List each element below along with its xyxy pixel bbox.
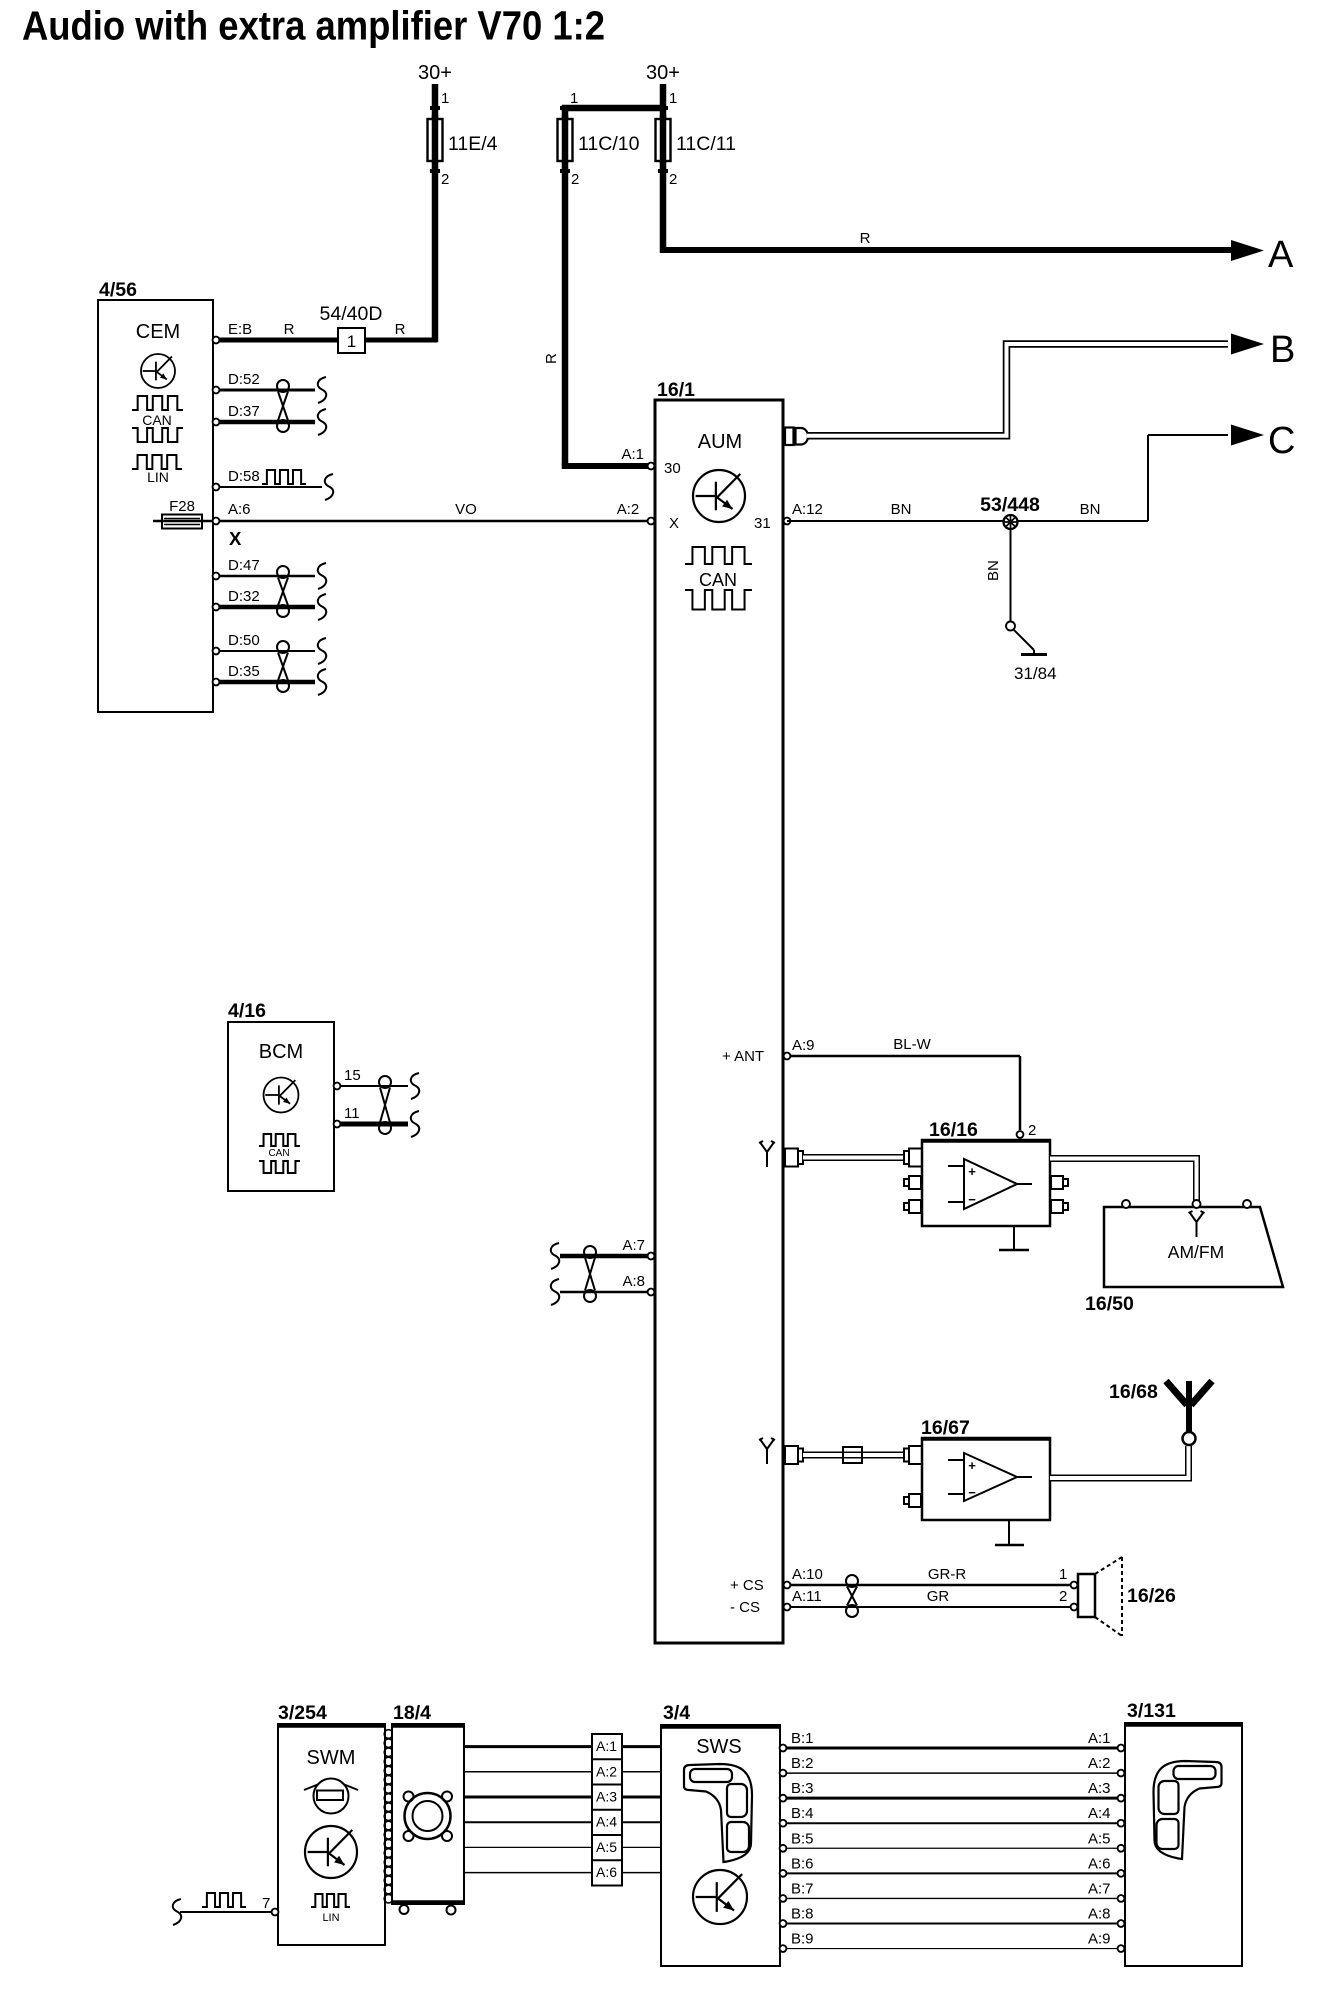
wire 30+ to fuse 11E/4 [432, 84, 439, 119]
svg-text:D:52: D:52 [228, 371, 260, 388]
3/131 pin A:7 [1118, 1895, 1125, 1902]
wire continuation BCM 11 [411, 1111, 419, 1137]
svg-text:A:4: A:4 [1088, 1805, 1111, 1822]
svg-text:A:7: A:7 [622, 1237, 645, 1254]
svg-text:AM/FM: AM/FM [1168, 1242, 1224, 1262]
wire CEM pin D:35 (twisted pair) [216, 680, 315, 685]
wire continuation BCM 15 [411, 1073, 419, 1099]
svg-text:SWS: SWS [696, 1736, 742, 1758]
SWM control-module symbol [305, 1826, 357, 1878]
CEM pin D:47 [213, 573, 220, 580]
wire AUM pin A:8 (twisted pair) [560, 1291, 648, 1294]
coax lead AUM to 16/16 [803, 1154, 905, 1161]
SWM pin 7 [272, 1909, 279, 1916]
svg-text:R: R [284, 321, 295, 338]
svg-text:A:12: A:12 [792, 501, 823, 518]
svg-text:X: X [669, 515, 679, 532]
wire 18/4 to SWS pin A:1 [464, 1745, 661, 1748]
svg-text:11C/10: 11C/10 [578, 133, 640, 155]
svg-text:A:3: A:3 [596, 1789, 617, 1805]
svg-text:A: A [1268, 234, 1294, 276]
AUM audio output lead connector [785, 428, 794, 446]
wire CEM pin D:58 LIN [216, 486, 322, 488]
wire SWS pin B:4 to 3/131 pin A:4 [786, 1822, 1118, 1824]
audio module 16/1 AUM box [655, 400, 783, 1643]
AUM pin 31 (A:12) [784, 518, 791, 525]
SWS control-module symbol [693, 1870, 747, 1924]
wire SWS pin B:7 to 3/131 pin A:7 [786, 1897, 1118, 1899]
3/131 pin A:6 [1118, 1870, 1125, 1877]
in-line connector label column A:1-A:6 [592, 1734, 622, 1886]
fuse 11C/11 [660, 115, 667, 163]
svg-text:D:32: D:32 [228, 588, 260, 605]
svg-text:−: − [968, 1192, 976, 1207]
CEM LIN symbol [132, 455, 182, 469]
coax lead AUM to 16/67 with in-line connector [803, 1452, 905, 1459]
CEM pin D:37 [213, 419, 220, 426]
svg-text:D:58: D:58 [228, 468, 260, 485]
svg-text:B:4: B:4 [791, 1805, 814, 1822]
BCM control-module symbol [264, 1078, 299, 1113]
roof antenna 16/68 [1186, 1381, 1192, 1432]
wire SWS pin B:3 to 3/131 pin A:3 [786, 1797, 1118, 1800]
AUM CAN symbol [685, 547, 752, 564]
svg-text:CAN: CAN [142, 412, 172, 428]
svg-text:A:10: A:10 [792, 1566, 823, 1583]
svg-text:54/40D: 54/40D [320, 303, 383, 325]
svg-text:B:8: B:8 [791, 1905, 814, 1922]
wire SWS pin B:8 to 3/131 pin A:8 [786, 1922, 1118, 1924]
svg-text:3/131: 3/131 [1127, 1700, 1176, 1722]
wire CEM pin D:47 (twisted pair) [216, 575, 315, 578]
SWS pin B:2 [780, 1770, 787, 1777]
svg-text:1: 1 [1059, 1566, 1067, 1583]
16/16 right pin upper [1051, 1176, 1063, 1189]
svg-text:A:8: A:8 [1088, 1905, 1111, 1922]
steering wheel module 3/254 SWM box [278, 1724, 385, 1945]
svg-text:CAN: CAN [268, 1148, 289, 1159]
shielded lead to connector arrow B [807, 344, 1228, 436]
wire CEM pin D:37 (twisted pair) [216, 420, 315, 425]
svg-text:A:8: A:8 [622, 1273, 645, 1290]
SWS pin B:1 [780, 1745, 787, 1752]
svg-text:BL-W: BL-W [893, 1036, 931, 1053]
CEM pin D:32 [213, 604, 220, 611]
wire 18/4 to SWS pin A:6 [464, 1872, 661, 1874]
svg-text:30+: 30+ [418, 62, 452, 84]
svg-text:A:1: A:1 [1088, 1730, 1111, 1747]
svg-text:R: R [860, 230, 871, 247]
3/131 pin A:8 [1118, 1920, 1125, 1927]
connector 18/4 box [392, 1724, 464, 1904]
antenna amplifier 16/16 box [922, 1140, 1050, 1226]
CEM pin D:50 [213, 648, 220, 655]
ground terminal 31/84 [1006, 622, 1015, 631]
svg-text:A:6: A:6 [228, 501, 251, 518]
wire 18/4 to SWS pin A:2 [464, 1771, 661, 1773]
svg-text:GR-R: GR-R [928, 1566, 966, 1583]
ground at 16/67 [1008, 1520, 1010, 1544]
wire CEM pin D:32 (twisted pair) [216, 605, 315, 610]
svg-text:+: + [968, 1458, 976, 1473]
svg-text:11E/4: 11E/4 [448, 133, 498, 155]
svg-text:A:2: A:2 [617, 501, 640, 518]
clock spring symbol in 18/4 [405, 1793, 451, 1839]
svg-text:11C/11: 11C/11 [676, 133, 736, 155]
in-line connector arrow B [1231, 334, 1264, 355]
svg-text:D:37: D:37 [228, 403, 260, 420]
wire continuation A:8 [551, 1279, 559, 1305]
SWS pin B:9 [780, 1945, 787, 1952]
wire GR: AUM pin A:11 to speaker 16/26 pin 2 [787, 1606, 1071, 1608]
wire continuation D:35 [318, 669, 326, 695]
svg-text:BN: BN [891, 501, 912, 518]
svg-text:F28: F28 [169, 498, 195, 515]
svg-text:1: 1 [570, 90, 578, 107]
BCM CAN symbol [259, 1134, 300, 1146]
16/67 lower-left pin [909, 1494, 921, 1507]
twisted pair symbol A:10/A:11 [846, 1575, 858, 1587]
18/4 lower pin right [447, 1906, 456, 1915]
wire fuse 11E/4 pin 2 down to relay wire [432, 161, 439, 342]
svg-text:AUM: AUM [698, 431, 742, 453]
splice 53/448 [1004, 515, 1018, 529]
svg-text:31: 31 [754, 515, 771, 532]
wire 18/4 to SWS pin A:4 [464, 1821, 661, 1823]
3/131 pin A:1 [1118, 1745, 1125, 1752]
wire R: CEM pin E:B to connector 54/40D [216, 338, 338, 343]
svg-text:LIN: LIN [147, 469, 169, 485]
antenna base connector 16/68 [1183, 1432, 1196, 1445]
svg-text:B:3: B:3 [791, 1780, 814, 1797]
3/131 pin A:5 [1118, 1845, 1125, 1852]
AUM pin 30 (A:1) [648, 463, 655, 470]
wire BN: AUM pin 31 to splice 53/448 [787, 520, 1010, 522]
svg-text:A:3: A:3 [1088, 1780, 1111, 1797]
svg-text:BN: BN [1080, 501, 1101, 518]
svg-text:7: 7 [262, 1895, 270, 1912]
coax lead 16/67 to antenna 16/68 [1050, 1446, 1189, 1478]
brake control module 4/16 BCM box [228, 1022, 334, 1191]
svg-text:16/50: 16/50 [1085, 1293, 1134, 1315]
svg-text:−: − [968, 1485, 976, 1500]
svg-text:31/84: 31/84 [1014, 664, 1057, 683]
svg-text:D:35: D:35 [228, 663, 260, 680]
fuse 11E/4 [432, 115, 439, 163]
AUM pin A:7 [648, 1253, 655, 1260]
CEM control-module symbol [141, 354, 175, 388]
wire BN: splice 53/448 to connector C [1017, 520, 1148, 522]
3/131 pin A:9 [1118, 1945, 1125, 1952]
SWM LIN symbol [311, 1894, 350, 1907]
svg-text:B:9: B:9 [791, 1931, 814, 1948]
wire AUM pin A:7 (twisted pair) [560, 1254, 648, 1259]
3/131 pin A:4 [1118, 1820, 1125, 1827]
twisted pair symbol D:50/D:35 [277, 641, 289, 653]
SWS pin B:4 [780, 1820, 787, 1827]
svg-text:B:5: B:5 [791, 1830, 814, 1847]
svg-text:D:47: D:47 [228, 557, 260, 574]
LIN square-wave on pin 7 wire [202, 1893, 246, 1907]
svg-text:2: 2 [441, 171, 449, 188]
wire BCM pin 11 (twisted pair) [337, 1122, 408, 1127]
antenna lead plug at 16/16 [909, 1149, 922, 1167]
svg-text:A:9: A:9 [792, 1037, 815, 1054]
16/16 bottom-left pin [909, 1200, 921, 1213]
svg-text:B: B [1270, 329, 1295, 371]
wire continuation D:50 [318, 638, 326, 664]
svg-text:16/67: 16/67 [921, 1417, 970, 1439]
svg-text:15: 15 [344, 1067, 361, 1084]
wire R: fuse 11C/10 pin 2 to AUM pin 30 [562, 161, 569, 466]
ground at 16/16 [1013, 1226, 1015, 1249]
SWS pin B:3 [780, 1795, 787, 1802]
svg-text:A:2: A:2 [1088, 1755, 1111, 1772]
svg-text:A:11: A:11 [792, 1588, 822, 1605]
svg-text:+ ANT: + ANT [722, 1048, 764, 1065]
twisted pair symbol D:47/D:32 [277, 566, 289, 578]
svg-text:16/1: 16/1 [657, 379, 695, 401]
antenna lead plug at AUM [785, 1149, 798, 1167]
svg-text:3/4: 3/4 [663, 1702, 690, 1724]
16/16 pin 2 [1017, 1131, 1024, 1138]
svg-text:LIN: LIN [322, 1912, 339, 1924]
wire 18/4 to SWS pin A:5 [464, 1846, 661, 1848]
svg-text:A:7: A:7 [1088, 1880, 1111, 1897]
AUM pin A:11 [784, 1604, 791, 1611]
svg-text:16/68: 16/68 [1109, 1381, 1158, 1403]
CEM pin D:35 [213, 679, 220, 686]
antenna lead plug at AUM (second) [785, 1446, 798, 1464]
svg-text:30+: 30+ [646, 62, 680, 84]
svg-text:53/448: 53/448 [980, 494, 1040, 516]
wire continuation D:52 [318, 377, 326, 403]
wire continuation D:58 [325, 474, 333, 500]
svg-text:SWM: SWM [307, 1747, 356, 1769]
svg-text:CAN: CAN [699, 570, 737, 590]
wire VO: CEM pin A:6 to AUM pin X [216, 520, 648, 523]
antenna lead plug at 16/67 [909, 1446, 922, 1464]
fuse 11C/10 [562, 108, 569, 120]
svg-text:B:7: B:7 [791, 1880, 814, 1897]
svg-text:A:1: A:1 [596, 1738, 617, 1754]
wire continuation D:32 [318, 594, 326, 620]
wire SWS pin B:9 to 3/131 pin A:9 [786, 1948, 1118, 1950]
AUM pin X (A:2) [648, 518, 655, 525]
wire BN: splice 53/448 down to ground [1010, 529, 1012, 621]
BCM pin 11 [334, 1121, 341, 1128]
AM/FM antenna unit 16/50 [1104, 1207, 1283, 1287]
svg-text:2: 2 [1059, 1588, 1067, 1605]
wire continuation A:7 [551, 1243, 559, 1269]
3/131 pin A:2 [1118, 1770, 1125, 1777]
op-amp symbol in 16/16 [964, 1159, 1017, 1209]
SWM rheostat symbol [314, 1779, 349, 1814]
BCM pin 15 [334, 1083, 341, 1090]
AUM antenna symbol (second lead) [759, 1438, 775, 1464]
svg-text:4/16: 4/16 [228, 1000, 266, 1022]
svg-text:1: 1 [441, 90, 449, 107]
CEM pin D:52 [213, 387, 220, 394]
wire SWS pin B:5 to 3/131 pin A:5 [786, 1847, 1118, 1849]
CEM CAN symbol [132, 396, 183, 410]
fuse F28 inside CEM [153, 520, 212, 523]
connector row between SWM and 18/4 [384, 1730, 393, 1739]
svg-text:A:4: A:4 [596, 1814, 617, 1830]
in-line connector arrow A [1231, 240, 1264, 261]
speaker 16/26 [1078, 1574, 1095, 1617]
svg-text:B:1: B:1 [791, 1730, 814, 1747]
svg-text:2: 2 [1028, 1122, 1036, 1139]
svg-text:- CS: - CS [730, 1599, 760, 1616]
wire R: connector 54/40D to fuse 11E/4 [365, 338, 438, 343]
wire continuation SWM pin 7 [173, 1899, 181, 1925]
wire 30+ down to junction [660, 84, 667, 119]
16/16 right pin lower [1051, 1200, 1063, 1213]
wire continuation D:37 [318, 409, 326, 435]
CEM pin D:58 [213, 484, 220, 491]
svg-text:+: + [968, 1164, 976, 1179]
svg-text:16/26: 16/26 [1127, 1585, 1176, 1607]
svg-text:30: 30 [664, 460, 681, 477]
twisted pair symbol A:7/A:8 [584, 1246, 596, 1258]
AUM pin A:10 [784, 1582, 791, 1589]
wire 18/4 to SWS pin A:3 [464, 1796, 661, 1799]
op-amp symbol in 16/67 [964, 1453, 1017, 1501]
wire BL-W: AUM pin A:9 to antenna amplifier 16/16 pin 2 [787, 1055, 1020, 1058]
svg-text:A:1: A:1 [621, 446, 644, 463]
speaker 16/26 pin 2 [1071, 1604, 1078, 1611]
svg-text:C: C [1268, 420, 1295, 462]
svg-text:16/16: 16/16 [929, 1119, 978, 1141]
svg-text:B:6: B:6 [791, 1855, 814, 1872]
twisted pair symbol BCM 15/11 [379, 1076, 391, 1088]
speaker 16/26 pin 1 [1071, 1582, 1078, 1589]
control module 4/56 CEM box [98, 300, 213, 712]
AUM control-module symbol [693, 470, 745, 522]
SWS pin B:7 [780, 1895, 787, 1902]
svg-text:18/4: 18/4 [393, 1702, 431, 1724]
steering wheel switch 3/4 SWS box [661, 1725, 780, 1966]
svg-text:4/56: 4/56 [99, 279, 137, 301]
svg-text:2: 2 [571, 171, 579, 188]
svg-text:BCM: BCM [259, 1041, 303, 1063]
svg-text:3/254: 3/254 [278, 1702, 327, 1724]
antenna amplifier 16/67 box [922, 1438, 1050, 1520]
LIN square-wave on D:58 wire [262, 470, 306, 484]
wire SWS pin B:2 to 3/131 pin A:2 [786, 1772, 1118, 1774]
svg-text:A:9: A:9 [1088, 1931, 1111, 1948]
CEM pin E:B [213, 337, 220, 344]
wire BCM pin 15 (twisted pair) [337, 1085, 408, 1087]
AUM antenna symbol (AM/FM lead) [759, 1141, 775, 1167]
svg-text:A:5: A:5 [596, 1839, 617, 1855]
wire junction between fuse 11C/10 and 11C/11 [562, 105, 663, 112]
svg-text:A:2: A:2 [596, 1763, 617, 1779]
svg-text:E:B: E:B [228, 321, 252, 338]
wire SWS pin B:1 to 3/131 pin A:1 [786, 1747, 1118, 1750]
in-line connector arrow C [1231, 425, 1264, 446]
wire continuation D:47 [318, 563, 326, 589]
svg-text:GR: GR [927, 1588, 950, 1605]
svg-text:2: 2 [669, 171, 677, 188]
3/131 keypad symbol (mirrored) [1154, 1761, 1222, 1859]
svg-text:1: 1 [669, 90, 677, 107]
svg-text:CEM: CEM [136, 321, 180, 343]
connector 54/40D [338, 328, 365, 353]
svg-text:Audio with extra amplifier V70: Audio with extra amplifier V70 1:2 [22, 3, 605, 49]
wire CEM pin D:52 (twisted pair) [216, 389, 315, 392]
coax lead 16/16 to AM/FM antenna 16/50 [1050, 1159, 1197, 1204]
svg-text:A:6: A:6 [596, 1864, 617, 1880]
svg-text:R: R [543, 353, 560, 364]
svg-text:D:50: D:50 [228, 632, 260, 649]
svg-text:+ CS: + CS [730, 1577, 764, 1594]
CEM pin A:6 [213, 518, 220, 525]
steering wheel switch 3/131 box [1125, 1723, 1242, 1966]
AUM pin A:9 [784, 1053, 791, 1060]
3/131 pin A:3 [1118, 1795, 1125, 1802]
SWS pin B:6 [780, 1870, 787, 1877]
svg-text:BN: BN [985, 560, 1002, 581]
wire R: fuse 11C/11 pin 2 to connector A [660, 161, 667, 253]
svg-text:11: 11 [344, 1105, 360, 1122]
svg-text:B:2: B:2 [791, 1755, 814, 1772]
SWS pin B:5 [780, 1845, 787, 1852]
wire CEM pin D:50 (twisted pair) [216, 650, 315, 652]
svg-text:R: R [395, 321, 406, 338]
twisted pair symbol D:52/D:37 [277, 380, 289, 392]
16/16 lower-left pin [909, 1176, 921, 1189]
wire SWS pin B:6 to 3/131 pin A:6 [786, 1872, 1118, 1874]
SWS pin B:8 [780, 1920, 787, 1927]
svg-text:A:5: A:5 [1088, 1830, 1111, 1847]
svg-text:VO: VO [455, 501, 477, 518]
SWS keypad symbol [684, 1764, 752, 1862]
wire to SWM pin 7 (LIN) [180, 1911, 272, 1913]
svg-text:1: 1 [347, 332, 356, 351]
AUM pin A:8 [648, 1289, 655, 1296]
svg-text:A:6: A:6 [1088, 1855, 1111, 1872]
svg-text:X: X [229, 528, 242, 549]
18/4 lower pin left [400, 1905, 409, 1914]
wire GR-R: AUM pin A:10 to speaker 16/26 pin 1 [787, 1584, 1071, 1587]
